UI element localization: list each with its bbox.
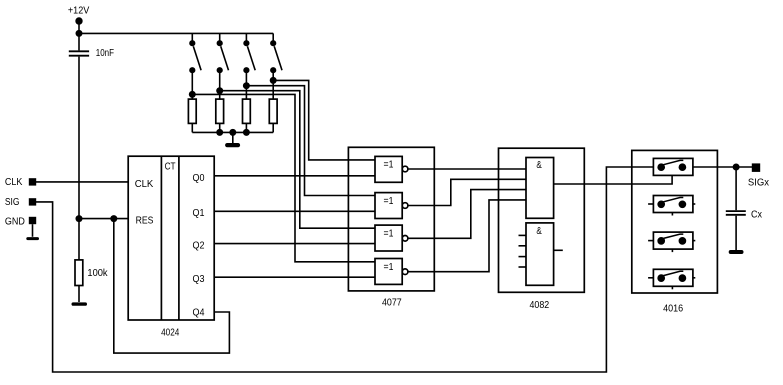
svg-text:+12V: +12V	[68, 5, 90, 16]
svg-text:=1: =1	[384, 196, 394, 207]
svg-text:&: &	[536, 160, 542, 171]
svg-text:SIGx: SIGx	[748, 178, 769, 189]
svg-text:Q3: Q3	[193, 274, 205, 285]
svg-text:SIG: SIG	[5, 197, 20, 208]
svg-text:4024: 4024	[161, 328, 180, 339]
svg-text:CLK: CLK	[135, 179, 154, 190]
svg-text:CT: CT	[165, 161, 176, 172]
svg-text:Q0: Q0	[193, 173, 205, 184]
svg-text:Q2: Q2	[193, 240, 205, 251]
svg-text:4082: 4082	[530, 300, 550, 311]
svg-text:4077: 4077	[382, 297, 402, 308]
svg-text:=1: =1	[384, 262, 394, 273]
svg-text:Q1: Q1	[193, 208, 205, 219]
svg-text:GND: GND	[5, 217, 25, 228]
svg-text:CLK: CLK	[5, 177, 23, 188]
svg-text:=1: =1	[384, 160, 394, 171]
svg-text:RES: RES	[136, 216, 154, 227]
svg-text:Q4: Q4	[193, 307, 205, 318]
svg-text:Cx: Cx	[751, 209, 762, 220]
svg-text:100k: 100k	[87, 268, 108, 279]
svg-text:10nF: 10nF	[96, 48, 114, 59]
svg-text:=1: =1	[384, 228, 394, 239]
svg-text:&: &	[536, 226, 542, 237]
svg-text:4016: 4016	[663, 303, 683, 314]
